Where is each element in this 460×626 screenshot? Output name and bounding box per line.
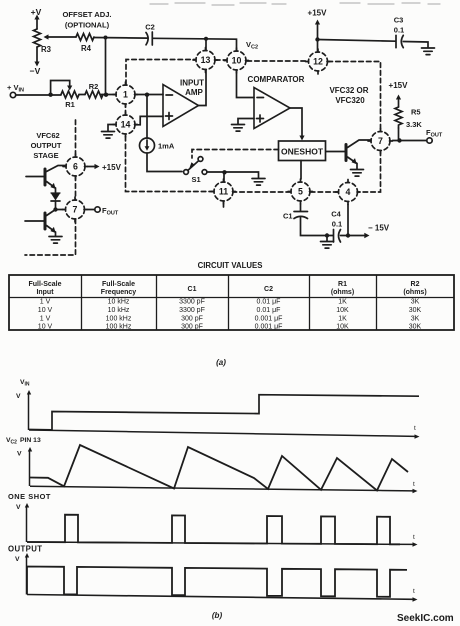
axis VC2 horizontal: [30, 486, 413, 491]
svg-text:− 15V: − 15V: [368, 224, 390, 233]
wire junction to pin 13: [205, 39, 207, 50]
svg-text:14: 14: [121, 120, 131, 130]
svg-text:(ohms): (ohms): [403, 289, 426, 296]
label R5 3.3K: [406, 108, 422, 130]
wire junction to C3: [318, 40, 396, 42]
svg-text:3K: 3K: [411, 299, 420, 306]
wire R3 wiper arrow: [44, 34, 77, 39]
svg-text:1K: 1K: [338, 299, 347, 306]
label S1: [192, 175, 201, 184]
svg-text:5: 5: [298, 187, 303, 197]
svg-text:10 kHz: 10 kHz: [108, 307, 130, 314]
svg-text:7: 7: [378, 136, 383, 146]
svg-text:V: V: [17, 451, 22, 458]
dashed IC boundary pin10 to pin12: [247, 60, 308, 62]
label -15V: [368, 224, 390, 233]
dashed IC boundary pin14 to pin1: [125, 105, 127, 116]
pin 11: [211, 179, 236, 204]
transistor Q2 upper: [26, 166, 66, 193]
svg-text:VFC62: VFC62: [36, 131, 59, 140]
pin 12: [306, 49, 331, 74]
svg-text:t: t: [413, 588, 415, 595]
wire op-amp output to pin 13: [199, 70, 207, 106]
label OFFSET ADJ. (OPTIONAL): [62, 10, 111, 30]
svg-text:OFFSET ADJ.: OFFSET ADJ.: [62, 10, 111, 19]
svg-text:Full-Scale: Full-Scale: [102, 281, 135, 288]
svg-text:(ohms): (ohms): [331, 289, 354, 296]
svg-text:1mA: 1mA: [158, 142, 175, 151]
svg-text:1: 1: [123, 90, 128, 100]
svg-text:13: 13: [201, 55, 211, 65]
node junction R2/pin1: [104, 93, 108, 97]
dashed IC boundary pin13 to pin10: [216, 59, 227, 61]
svg-text:10 kHz: 10 kHz: [108, 299, 130, 306]
axis VIN vertical: [28, 394, 30, 430]
label VFC62 OUTPUT STAGE: [31, 131, 62, 160]
svg-text:VFC320: VFC320: [335, 96, 365, 105]
ground C4: [321, 242, 334, 249]
pin 6: [63, 154, 88, 179]
label R4: [81, 44, 92, 53]
label VC2: [246, 40, 258, 51]
label C2: [145, 23, 155, 32]
wire pin 4 down: [347, 205, 349, 236]
svg-text:0.01 μF: 0.01 μF: [257, 307, 281, 314]
ground Q1: [351, 170, 364, 177]
wire S1 to ground: [207, 172, 259, 178]
svg-text:100 kHz: 100 kHz: [106, 316, 132, 323]
waveform VIN trace: [29, 395, 419, 430]
svg-text:C2: C2: [264, 286, 273, 293]
svg-text:11: 11: [219, 187, 228, 197]
op-amp minus input mark: [166, 94, 173, 96]
svg-text:OUTPUT: OUTPUT: [8, 545, 42, 554]
svg-text:C3: C3: [394, 16, 404, 25]
table CIRCUIT VALUES: [9, 261, 454, 367]
svg-text:0.1: 0.1: [394, 26, 404, 35]
dashed VFC62 box: [25, 120, 76, 255]
svg-text:+15V: +15V: [308, 9, 328, 18]
node junction C1/C4/ground: [325, 233, 329, 237]
pin 14: [113, 112, 138, 137]
svg-text:4: 4: [346, 187, 351, 197]
svg-text:12: 12: [313, 57, 323, 67]
svg-text:VFC32 OR: VFC32 OR: [329, 86, 368, 95]
svg-text:Frequency: Frequency: [101, 289, 137, 296]
wire +15V arrow: [315, 20, 320, 40]
wire pin 6 +15V arrow: [88, 164, 100, 169]
op-amp plus input mark: [166, 113, 173, 120]
svg-text:0.001 μF: 0.001 μF: [255, 316, 283, 323]
pin 4: [336, 180, 361, 205]
wire pin 5 to C1: [300, 204, 302, 211]
label Fout VFC62: [102, 206, 119, 217]
svg-text:300 pF: 300 pF: [181, 324, 203, 331]
svg-text:t: t: [413, 481, 415, 488]
label R2: [89, 82, 99, 91]
label R1: [65, 100, 75, 109]
svg-text:ONESHOT: ONESHOT: [281, 147, 324, 157]
wire pin 14 step to plus input: [136, 116, 164, 124]
svg-text:3.3K: 3.3K: [406, 120, 422, 129]
transistor Q3 lower: [25, 210, 56, 237]
svg-text:6: 6: [73, 162, 78, 172]
label INPUT AMP: [180, 79, 204, 98]
wire -V arrow: [34, 47, 39, 67]
node Fout terminal: [427, 138, 432, 143]
svg-text:10 V: 10 V: [38, 324, 53, 331]
resistor R5: [395, 107, 402, 128]
svg-text:OUTPUT: OUTPUT: [31, 141, 62, 150]
pin 11 stub: [223, 202, 225, 207]
node junction op-amp input: [145, 93, 149, 97]
wire pin 10 to comparator minus: [237, 70, 255, 98]
svg-text:t: t: [413, 534, 415, 541]
node +15V (R5): [389, 81, 409, 90]
waveform VC2 trace: [30, 445, 408, 490]
resistor R3: [34, 29, 41, 47]
svg-text:(a): (a): [216, 358, 226, 367]
svg-text:+15V: +15V: [102, 163, 122, 172]
waveform OUTPUT: [8, 545, 418, 602]
svg-text:1K: 1K: [338, 316, 347, 323]
svg-text:C2: C2: [145, 23, 155, 32]
ground C3: [422, 48, 435, 55]
axis OUTPUT horizontal: [27, 595, 413, 600]
svg-text:t: t: [414, 425, 416, 432]
wire pin1 to op-amp minus: [135, 94, 163, 96]
svg-text:−V: −V: [30, 66, 41, 76]
svg-text:0.001 μF: 0.001 μF: [255, 324, 283, 331]
svg-text:C4: C4: [331, 210, 341, 219]
svg-text:R1: R1: [65, 100, 75, 109]
node Fout terminal VFC62: [87, 207, 100, 212]
label 1mA: [158, 142, 175, 151]
dashed IC boundary pin5 to pin11: [234, 191, 291, 193]
wire junction to pin 7 VFC62: [56, 209, 64, 211]
svg-text:30K: 30K: [409, 307, 422, 314]
axis VIN horizontal: [29, 430, 415, 436]
label Fout: [426, 128, 443, 139]
pin 7: [368, 129, 393, 154]
transistor Q1: [326, 140, 371, 169]
svg-text:(OPTIONAL): (OPTIONAL): [65, 21, 110, 30]
svg-text:0.1: 0.1: [332, 220, 342, 229]
current source 1mA: [140, 138, 155, 153]
capacitor C3: [396, 35, 403, 47]
node +VIN terminal: [7, 83, 24, 94]
node junction +15V/C3: [315, 37, 319, 41]
axis OUTPUT vertical: [26, 557, 28, 595]
dashed IC boundary pin1 to pin13: [126, 60, 196, 85]
node junction pin4: [346, 233, 350, 237]
svg-text:100 kHz: 100 kHz: [106, 324, 132, 331]
axis ONE SHOT vertical: [26, 507, 28, 542]
wire junction to pin 12: [317, 40, 319, 52]
node junction above pin 11: [222, 170, 226, 174]
svg-text:(b): (b): [212, 611, 223, 620]
label COMPARATOR: [248, 75, 305, 84]
wire junction to ground: [326, 236, 328, 242]
svg-text:V: V: [16, 393, 21, 400]
switch S1: [184, 157, 207, 175]
svg-text:1 V: 1 V: [40, 316, 51, 323]
capacitor C1: [294, 212, 308, 219]
wire VIN to pin 1: [16, 94, 116, 97]
svg-text:R2: R2: [411, 281, 420, 288]
wire C4 to -15V arrow: [341, 233, 370, 238]
dashed IC boundary pin4 to pin5: [311, 191, 339, 193]
capacitor C2: [146, 32, 152, 45]
node junction diode/pin7: [53, 207, 57, 211]
wire comparator plus to ground: [238, 119, 254, 125]
diode D1: [51, 192, 60, 207]
capacitor C4: [334, 230, 341, 243]
svg-text:Full-Scale: Full-Scale: [28, 281, 61, 288]
node junction R4/C2: [104, 36, 108, 40]
oneshot U3: [279, 141, 326, 161]
wire pin 14 to ground: [108, 125, 116, 132]
svg-text:STAGE: STAGE: [33, 151, 58, 160]
wire C2 to pins 13/10: [152, 38, 236, 50]
comparator U2: [254, 88, 290, 129]
wire oneshot to pin 5: [300, 161, 302, 180]
wire junction to pin 11: [223, 173, 225, 182]
node junction VIN/R1: [48, 93, 52, 97]
svg-text:3K: 3K: [411, 316, 420, 323]
comparator minus mark: [257, 97, 264, 99]
node -V: [30, 66, 41, 76]
waveform VIN: [16, 379, 420, 439]
svg-text:10K: 10K: [336, 324, 349, 331]
svg-text:1 V: 1 V: [40, 299, 51, 306]
wire C3 to ground: [403, 42, 428, 48]
pin 13: [193, 48, 218, 73]
svg-text:30K: 30K: [409, 324, 422, 331]
wire R1 wiper loop: [51, 81, 73, 95]
svg-text:V: V: [15, 556, 20, 563]
pin 5: [288, 179, 313, 204]
wire current source to switch S1: [147, 153, 182, 172]
scan artifact top: [150, 3, 440, 5]
wire R5 to Fout: [393, 128, 427, 141]
svg-text:ONE SHOT: ONE SHOT: [8, 492, 51, 501]
label VFC32 OR VFC320: [329, 86, 368, 105]
wire junction down to R2 node: [105, 38, 107, 95]
pin 10: [224, 48, 249, 73]
wire +V arrow: [34, 15, 39, 30]
node +15V (C3): [308, 9, 328, 18]
svg-text:V: V: [16, 504, 21, 511]
wire junction down to current source: [146, 95, 148, 139]
svg-text:INPUT: INPUT: [180, 79, 204, 88]
node junction R5/pin7: [397, 138, 401, 142]
svg-text:+V: +V: [31, 7, 42, 17]
svg-text:300 pF: 300 pF: [181, 316, 203, 323]
svg-text:R1: R1: [338, 281, 347, 288]
wire comparator output to oneshot: [290, 108, 305, 141]
resistor R1 (pot): [61, 91, 79, 98]
label R3: [41, 45, 52, 54]
label C4 0.1: [331, 210, 342, 229]
label C3 0.1: [394, 16, 405, 35]
svg-text:R2: R2: [89, 82, 99, 91]
ground comparator: [232, 125, 245, 132]
axis ONE SHOT horizontal: [27, 542, 413, 544]
svg-text:S1: S1: [192, 175, 201, 184]
svg-text:AMP: AMP: [185, 88, 203, 97]
node +V: [31, 7, 42, 17]
pin 1: [113, 82, 138, 107]
ground Q3: [49, 237, 62, 244]
comparator plus mark: [257, 115, 264, 122]
svg-text:C1: C1: [283, 212, 293, 221]
dashed IC boundary pin7 to pin4: [358, 151, 381, 192]
resistor R4: [76, 34, 94, 41]
svg-text:R5: R5: [411, 108, 421, 117]
wire R4 to C2: [94, 37, 148, 40]
wire +15V arrow to R5: [396, 95, 401, 108]
svg-text:+15V: +15V: [389, 81, 409, 90]
op-amp U1 input amp: [163, 85, 199, 127]
svg-text:10: 10: [232, 56, 242, 66]
svg-text:3300 pF: 3300 pF: [179, 307, 205, 314]
svg-text:10K: 10K: [336, 307, 349, 314]
waveform ONE SHOT: [8, 492, 418, 547]
resistor R2: [85, 91, 103, 98]
pin 7 VFC62: [63, 197, 88, 222]
svg-text:COMPARATOR: COMPARATOR: [248, 75, 305, 84]
waveform VC2: [6, 437, 418, 493]
svg-text:CIRCUIT VALUES: CIRCUIT VALUES: [198, 261, 263, 270]
label +15V (pin6): [102, 163, 122, 172]
svg-text:SeekIC.com: SeekIC.com: [397, 613, 454, 624]
svg-text:3300 pF: 3300 pF: [179, 299, 205, 306]
axis VC2 vertical: [29, 451, 31, 486]
dashed IC boundary pin11 to pin14: [126, 135, 214, 192]
waveform ONE SHOT trace: [27, 515, 400, 545]
dashed wire oneshot to S1: [192, 150, 279, 159]
svg-text:0.01 μF: 0.01 μF: [257, 299, 281, 306]
label C1: [283, 212, 293, 221]
svg-text:R4: R4: [81, 44, 92, 53]
svg-text:Input: Input: [36, 289, 54, 296]
svg-text:7: 7: [73, 205, 78, 215]
dashed IC boundary pin12 to pin7: [328, 62, 381, 132]
waveform OUTPUT trace: [27, 567, 407, 597]
svg-text:C1: C1: [188, 286, 197, 293]
svg-text:10 V: 10 V: [38, 307, 53, 314]
ground pin 14: [102, 132, 115, 139]
ground S1: [252, 179, 265, 186]
svg-text:R3: R3: [41, 45, 52, 54]
wire C1 to C4 node: [301, 218, 334, 236]
node junction above pin 13: [204, 37, 208, 41]
